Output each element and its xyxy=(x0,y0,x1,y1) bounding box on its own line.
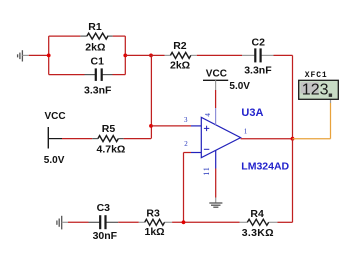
junction dot noninverting branch xyxy=(149,124,153,128)
wire inverting vertical down xyxy=(183,153,185,223)
VCC power symbol (rotated, left) xyxy=(44,111,66,166)
svg-text:R1: R1 xyxy=(88,21,102,33)
resistor R2 xyxy=(165,40,197,72)
svg-text:XFC1: XFC1 xyxy=(305,71,328,80)
svg-text:VCC: VCC xyxy=(45,111,66,122)
wire R1/C1 loop right edge xyxy=(124,36,126,75)
wire R1/C1 loop left edge xyxy=(48,36,50,75)
wire C3 to R3 xyxy=(118,221,139,223)
svg-text:2kΩ: 2kΩ xyxy=(85,41,105,53)
wire loop to R2 xyxy=(125,54,164,56)
ground GND3 (rotated, bottom-left) xyxy=(57,216,68,230)
svg-text:R4: R4 xyxy=(250,208,264,220)
op-amp U3A xyxy=(201,107,289,173)
resistor R4 xyxy=(240,208,278,239)
wire pin 11 to ground xyxy=(215,169,217,198)
ground GND1 (rotated, top-left) xyxy=(18,50,29,61)
wire C2 to right corner xyxy=(274,54,293,56)
wire XFC1 horizontal (orange) xyxy=(293,138,331,140)
resistor R1 xyxy=(80,21,112,54)
wire to op-amp noninverting input xyxy=(151,125,191,127)
svg-text:R3: R3 xyxy=(146,207,160,219)
svg-text:1: 1 xyxy=(244,127,248,135)
wire C1 row right xyxy=(113,74,126,76)
svg-text:4: 4 xyxy=(204,113,212,117)
svg-text:4.7kΩ: 4.7kΩ xyxy=(97,144,126,156)
junction dot output node xyxy=(291,137,295,141)
svg-text:123: 123 xyxy=(302,82,329,99)
junction dot node top wire at x151 xyxy=(149,54,153,58)
VCC power symbol (op-amp, top) xyxy=(203,69,250,93)
resistor R3 xyxy=(139,207,172,238)
junction dot node top wire at loop right xyxy=(123,54,127,58)
wire R1 row right xyxy=(113,35,126,37)
svg-text:5.0V: 5.0V xyxy=(44,155,65,166)
wire R3 to R4 xyxy=(172,221,239,223)
wire right vertical down to R4 row xyxy=(292,139,294,223)
wire inverting input short xyxy=(184,152,192,154)
wire R4 to right corner xyxy=(278,221,293,223)
capacitor C3 xyxy=(89,202,119,242)
svg-text:U3A: U3A xyxy=(241,107,263,119)
pin stub op-amp pin 4 xyxy=(215,108,217,125)
svg-text:R2: R2 xyxy=(173,40,187,52)
wire ground to C3 xyxy=(68,221,89,223)
wire VCC to R5 xyxy=(62,138,92,140)
frequency counter XFC1 xyxy=(299,71,339,99)
svg-text:1kΩ: 1kΩ xyxy=(145,226,165,238)
pin stub op-amp pin 2 xyxy=(191,152,201,154)
svg-text:LM324AD: LM324AD xyxy=(241,160,289,172)
svg-text:30nF: 30nF xyxy=(93,230,118,242)
svg-text:3.3nF: 3.3nF xyxy=(84,85,112,97)
svg-text:C1: C1 xyxy=(91,56,105,68)
wire ground to loop xyxy=(29,54,49,56)
wire op-amp output xyxy=(241,138,293,140)
wire XFC1 vertical (orange) xyxy=(330,103,332,139)
resistor R5 xyxy=(92,123,125,155)
junction dot node top wire at loop left xyxy=(47,54,51,58)
junction dot inverting node bottom xyxy=(182,220,186,224)
wire R1 row left xyxy=(49,35,81,37)
svg-text:2: 2 xyxy=(184,140,188,148)
svg-text:C2: C2 xyxy=(252,36,266,48)
svg-text:3: 3 xyxy=(184,116,188,124)
svg-text:C3: C3 xyxy=(97,202,111,214)
svg-text:5.0V: 5.0V xyxy=(229,81,250,92)
wire R5 to corner x151 xyxy=(124,138,151,140)
wire R2 to C2 xyxy=(197,54,242,56)
wire VCC to op-amp pin 4 xyxy=(215,90,217,108)
svg-text:3.3nF: 3.3nF xyxy=(244,65,272,77)
wire vertical x151 (top wire down to R5 corner) xyxy=(150,55,152,138)
pin stub op-amp pin 3 xyxy=(191,125,201,127)
capacitor C2 xyxy=(242,36,274,76)
wire right vertical (C2 down to output node) xyxy=(292,55,294,138)
pin stub op-amp pin 11 xyxy=(215,150,217,168)
wire C1 row left xyxy=(49,74,85,76)
ground GND2 (below op-amp) xyxy=(209,198,222,208)
svg-text:R5: R5 xyxy=(102,123,116,135)
svg-text:VCC: VCC xyxy=(206,69,227,80)
pin stub XFC1 xyxy=(330,97,332,103)
svg-text:11: 11 xyxy=(202,166,211,175)
capacitor C1 xyxy=(84,56,113,97)
svg-text:3.3KΩ: 3.3KΩ xyxy=(242,227,274,239)
svg-text:2kΩ: 2kΩ xyxy=(170,60,190,72)
